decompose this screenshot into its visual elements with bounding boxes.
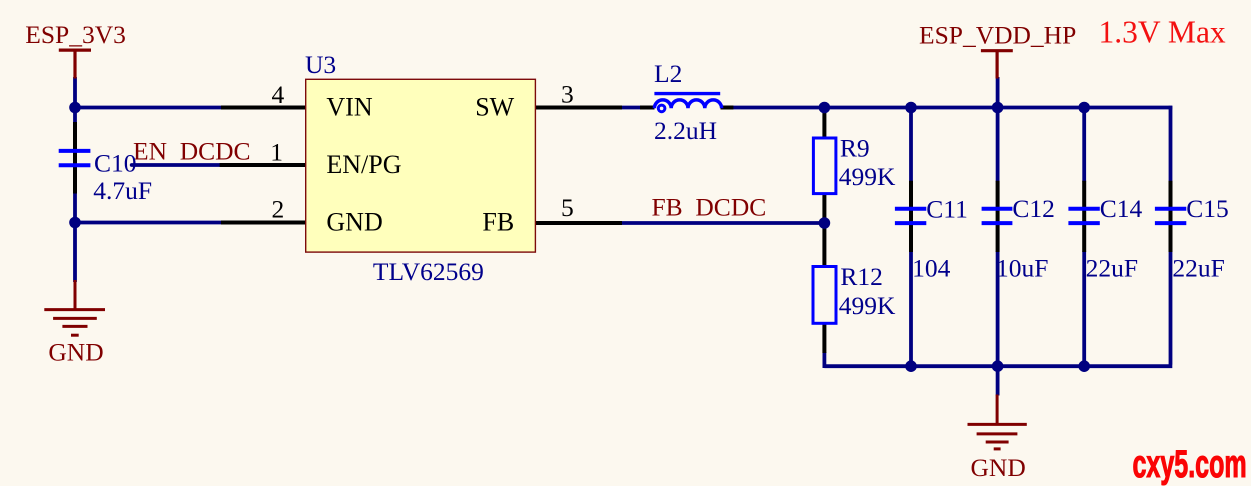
svg-text:R12: R12 xyxy=(840,262,883,291)
svg-text:2.2uH: 2.2uH xyxy=(654,116,717,145)
svg-text:EN: EN xyxy=(133,137,167,166)
svg-text:499K: 499K xyxy=(839,291,896,320)
svg-text:5: 5 xyxy=(561,193,574,222)
svg-text:SW: SW xyxy=(475,93,514,122)
svg-text:22uF: 22uF xyxy=(1086,253,1138,282)
svg-text:1: 1 xyxy=(270,137,283,166)
svg-text:GND: GND xyxy=(48,338,103,367)
svg-text:ESP_VDD_HP: ESP_VDD_HP xyxy=(919,21,1076,50)
svg-text:22uF: 22uF xyxy=(1172,253,1224,282)
svg-text:VIN: VIN xyxy=(326,93,372,122)
svg-text:C11: C11 xyxy=(926,194,968,223)
svg-text:GND: GND xyxy=(971,453,1026,482)
svg-text:10uF: 10uF xyxy=(996,253,1048,282)
svg-text:FB: FB xyxy=(482,208,514,237)
svg-text:cxy5.com: cxy5.com xyxy=(1133,441,1247,485)
svg-text:3: 3 xyxy=(561,80,574,109)
svg-text:L2: L2 xyxy=(654,59,682,88)
svg-text:1.3V Max: 1.3V Max xyxy=(1099,15,1226,50)
svg-text:4.7uF: 4.7uF xyxy=(93,176,152,205)
svg-text:4: 4 xyxy=(272,80,285,109)
svg-text:C14: C14 xyxy=(1100,194,1143,223)
svg-text:104: 104 xyxy=(912,253,951,282)
svg-text:ESP_3V3: ESP_3V3 xyxy=(25,20,126,49)
svg-text:GND: GND xyxy=(326,208,382,237)
svg-text:FB: FB xyxy=(652,193,683,222)
svg-text:DCDC: DCDC xyxy=(180,137,251,166)
svg-text:U3: U3 xyxy=(305,50,336,79)
svg-text:R9: R9 xyxy=(840,134,870,163)
svg-text:499K: 499K xyxy=(839,162,896,191)
svg-text:C10: C10 xyxy=(94,149,137,178)
svg-text:DCDC: DCDC xyxy=(695,193,766,222)
svg-text:C15: C15 xyxy=(1186,194,1229,223)
svg-text:2: 2 xyxy=(272,195,285,224)
svg-text:C12: C12 xyxy=(1012,194,1055,223)
svg-text:EN/PG: EN/PG xyxy=(326,150,401,179)
svg-text:TLV62569: TLV62569 xyxy=(373,257,484,286)
